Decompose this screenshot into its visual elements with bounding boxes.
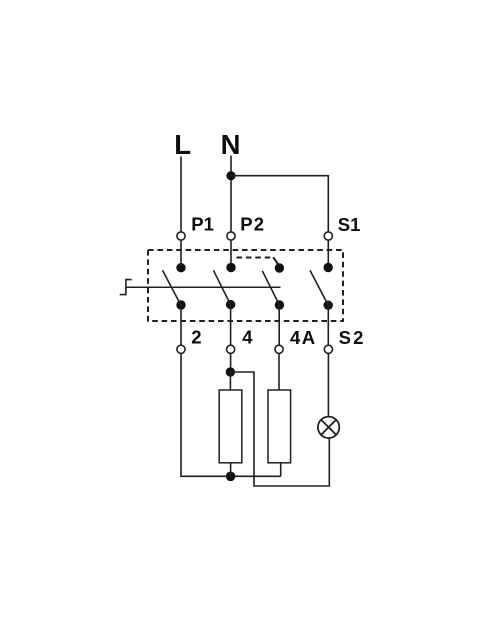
- manual actuator symbol: [120, 280, 132, 295]
- switch blade pole2: [213, 270, 230, 304]
- contact dot S1 top: [324, 263, 333, 272]
- wire terminal 4A down: [278, 353, 280, 390]
- svg-text:S1: S1: [338, 214, 361, 235]
- wire N to S1: [231, 176, 328, 232]
- wire junction4 to lamp return: [230, 372, 329, 486]
- junction N: [226, 171, 235, 180]
- svg-text:4: 4: [242, 327, 253, 348]
- svg-text:P1: P1: [191, 213, 214, 234]
- terminal S2: [324, 345, 332, 353]
- svg-text:L: L: [174, 129, 191, 160]
- contact dot pole3 bottom: [275, 300, 284, 309]
- contact dot pole2 bottom: [226, 300, 235, 309]
- resistor R1: [219, 390, 242, 463]
- wire terminal 2 down and right: [181, 353, 281, 476]
- terminal 4A: [275, 345, 283, 353]
- svg-text:4A: 4A: [290, 327, 316, 348]
- terminal S1: [324, 232, 332, 240]
- resistor R2 bottom lead: [280, 463, 282, 477]
- wire S1 to contact: [327, 240, 329, 267]
- junction bottom: [226, 472, 236, 482]
- wire P1 to contact: [180, 240, 182, 268]
- wire N lead: [230, 156, 232, 232]
- wire terminal 4 to junction: [230, 353, 232, 372]
- resistor R1 top lead: [229, 372, 231, 390]
- junction terminal 4: [226, 367, 235, 376]
- svg-text:P2: P2: [240, 213, 265, 234]
- contact dot P1 top: [176, 263, 185, 272]
- terminal 4: [227, 345, 235, 353]
- terminal P2: [227, 232, 235, 240]
- contact dot P2 top: [226, 263, 235, 272]
- switch blade pole4: [310, 270, 328, 305]
- lamp: [318, 417, 339, 438]
- wire terminal S2 to lamp: [327, 353, 329, 416]
- resistor R1 bottom lead: [230, 463, 232, 477]
- wire pole2 to terminal 4: [230, 305, 232, 345]
- link tick to contact 4A: [273, 257, 279, 266]
- resistor R2: [268, 390, 291, 463]
- contact dot pole4 bottom: [324, 301, 333, 310]
- svg-text:S2: S2: [339, 327, 366, 348]
- switch enclosure dashed box: [148, 250, 343, 321]
- svg-text:N: N: [221, 129, 241, 160]
- actuator bar: [126, 286, 281, 288]
- switch blade pole1: [163, 270, 181, 305]
- wire P2 to contact: [230, 240, 232, 267]
- switch blade pole3: [262, 271, 279, 305]
- wire pole4 to terminal S2: [327, 305, 329, 345]
- contact dot 4A top: [275, 263, 284, 272]
- mechanical link dashed: [237, 257, 272, 259]
- wire L lead: [180, 157, 182, 232]
- wire pole3 to terminal 4A: [278, 305, 280, 345]
- svg-text:2: 2: [191, 327, 201, 348]
- contact dot pole1 bottom: [176, 300, 185, 309]
- terminal P1: [177, 232, 185, 240]
- terminal 2: [177, 345, 185, 353]
- wire pole1 to terminal 2: [180, 305, 182, 345]
